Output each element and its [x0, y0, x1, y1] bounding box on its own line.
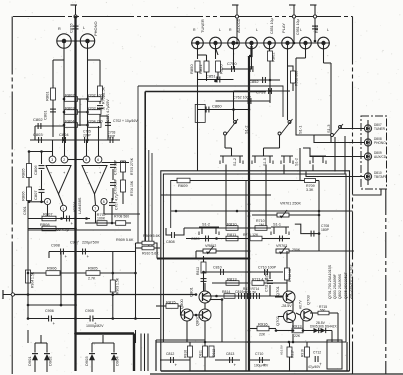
- resistor R850: [189, 61, 200, 74]
- node row330 l: [275, 329, 278, 332]
- transistor Q801: [189, 286, 212, 303]
- transistor Q702: [275, 311, 296, 327]
- node gbus r808: [74, 227, 77, 230]
- node row342 b: [204, 341, 207, 344]
- node r906 left: [27, 272, 30, 275]
- wire C708 row: [303, 233, 319, 235]
- wire bold rail 258: [157, 258, 249, 260]
- svg-text:S1-2: S1-2: [295, 158, 299, 166]
- wire row 318 c: [93, 318, 160, 320]
- wire opamp pin rail b: [64, 126, 66, 156]
- op-amp pin 4: [44, 198, 50, 204]
- wire R815 to Q800 base: [178, 306, 184, 315]
- resistor R903 1.5K: [110, 277, 119, 294]
- op-amp pin 2: [61, 156, 68, 163]
- diode D905: [314, 328, 319, 333]
- node q703 e: [302, 329, 305, 332]
- wire row 318 a: [28, 318, 49, 320]
- resistor R707 100K: [97, 212, 107, 225]
- node c860 junction: [248, 108, 251, 111]
- wire Q702 emitter down: [292, 321, 294, 331]
- wire wafer2 feed: [264, 147, 280, 149]
- node gbus 333: [74, 332, 77, 335]
- svg-text:C860: C860: [212, 104, 222, 109]
- svg-text:C712: C712: [313, 351, 321, 355]
- node c762 junction: [248, 100, 251, 103]
- node 135 273: [134, 272, 137, 275]
- wire R910 right: [154, 247, 160, 249]
- wire D810 bend: [306, 172, 320, 177]
- wire R862 down: [269, 61, 271, 103]
- wire pin4 drop: [47, 205, 49, 219]
- capacitor C804: [59, 132, 69, 143]
- node 294 a: [27, 293, 30, 296]
- svg-text:L: L: [83, 26, 85, 30]
- wire ladder mid rail: [79, 99, 81, 126]
- node col319 vr701: [318, 214, 321, 217]
- wire D808 bend: [314, 135, 335, 143]
- LED D807: [364, 125, 371, 132]
- svg-text:C706 18P: C706 18P: [114, 178, 118, 194]
- diode D904: [111, 354, 120, 366]
- svg-text:C905: C905: [85, 309, 94, 313]
- wire left pair v2c: [41, 193, 43, 202]
- wire fb rail1 top: [102, 162, 129, 164]
- wire rec L bend: [324, 62, 332, 64]
- node aux 272: [248, 271, 251, 274]
- wire C808 right hook: [174, 228, 184, 235]
- wire ground stub to aux junction: [236, 18, 238, 43]
- ground stub above rec jacks: [310, 5, 317, 18]
- resistor R810: [226, 222, 238, 231]
- node fb join: [111, 222, 114, 225]
- node aux 330: [248, 329, 251, 332]
- svg-text:Q800: Q800: [179, 298, 184, 309]
- capacitor C860: [206, 104, 222, 113]
- svg-text:C705 18P: C705 18P: [114, 159, 118, 175]
- node R804 left: [63, 124, 66, 127]
- svg-text:+: +: [234, 363, 237, 368]
- svg-text:22K: 22K: [294, 334, 301, 338]
- node gbus 318: [74, 317, 77, 320]
- wire double row b: [28, 229, 131, 231]
- wire wafer2 drop: [263, 148, 265, 156]
- resistor R913 22K: [292, 324, 303, 333]
- wire pin2-pin5 link: [68, 159, 83, 161]
- capacitor C762 100P: [233, 96, 252, 105]
- wire Q703 emitter: [302, 320, 304, 331]
- svg-text:-28.5V: -28.5V: [281, 304, 292, 308]
- section box 1: [161, 171, 350, 371]
- wire R815 left: [156, 305, 166, 307]
- wire r816 bot: [189, 357, 191, 371]
- svg-text:D905,906 DS442X: D905,906 DS442X: [310, 325, 337, 329]
- svg-text:Q802: Q802: [195, 315, 200, 326]
- wire fb rail1 v2b: [122, 172, 124, 180]
- node R704 left: [86, 124, 89, 127]
- svg-text:C812: C812: [166, 352, 174, 356]
- wire C851 row: [198, 79, 234, 81]
- resistor R904 1.5K: [26, 270, 35, 288]
- node row296 aux: [248, 295, 251, 298]
- svg-text:R805: R805: [21, 168, 26, 178]
- svg-text:VR701 250K: VR701 250K: [280, 202, 301, 206]
- wire after diodes: [331, 331, 333, 343]
- wire r718 top: [306, 342, 308, 347]
- node aux 342: [248, 341, 251, 344]
- node pair top a: [28, 150, 31, 153]
- svg-text:3: 3: [51, 158, 53, 162]
- svg-text:22K: 22K: [259, 333, 266, 337]
- capacitor C708 180P: [311, 231, 314, 237]
- wire C710 row: [249, 271, 283, 273]
- svg-text:R862: R862: [271, 52, 276, 62]
- wire C808 left hook: [166, 228, 172, 235]
- wire rec R stem: [305, 48, 307, 58]
- resistor R803: [65, 106, 78, 115]
- capacitor C706 18P: [110, 178, 118, 194]
- wire Q801 base link: [202, 295, 212, 297]
- svg-text:R806: R806: [21, 191, 26, 201]
- svg-text:C813: C813: [226, 352, 234, 356]
- node c809 j: [215, 237, 218, 240]
- wire C707 down: [111, 198, 113, 202]
- svg-text:6: 6: [97, 158, 99, 162]
- wire row 305: [28, 304, 76, 306]
- capacitor C909: [67, 216, 74, 227]
- switch wafer S1-5b lower: [310, 156, 326, 164]
- wire d901 top: [34, 343, 36, 353]
- wire d904 top: [113, 343, 115, 353]
- wire ladder rail right of R804: [78, 124, 89, 126]
- resistor R910: [142, 246, 154, 250]
- svg-text:R802: R802: [65, 93, 75, 98]
- wire feed col 148: [148, 150, 150, 247]
- wire R709 right: [316, 180, 320, 182]
- jack TUNER L: [210, 37, 222, 49]
- svg-text:C906: C906: [45, 309, 54, 313]
- wire R909 left: [136, 242, 143, 244]
- wire pin1 drop: [63, 212, 65, 219]
- wire row238b: [262, 238, 275, 240]
- svg-text:Q703: Q703: [306, 294, 311, 305]
- pot VR802: [203, 246, 216, 254]
- wire R952 branch: [288, 66, 294, 71]
- svg-text:R905: R905: [88, 266, 98, 271]
- node aux 258: [248, 257, 251, 260]
- node col319 c708: [318, 232, 321, 235]
- node c851 r850: [214, 80, 217, 83]
- section box A left edge: [137, 86, 139, 243]
- wire caps row 251: [49, 251, 136, 253]
- svg-text:560: 560: [320, 309, 326, 313]
- wire d904 bot: [113, 360, 115, 373]
- LED D809: [364, 153, 371, 160]
- resistor R950: [216, 61, 224, 74]
- svg-text:R850: R850: [189, 64, 194, 74]
- node pair bot b: [40, 201, 43, 204]
- svg-text:3.3K: 3.3K: [306, 188, 314, 192]
- svg-text:R916: R916: [258, 322, 268, 327]
- diode D812 column: [209, 346, 216, 357]
- wire opamp pin rail c: [86, 140, 88, 156]
- ground stub above phono jacks: [71, 5, 78, 18]
- wire caps row: [30, 139, 120, 141]
- wire R712 to Q701: [286, 280, 288, 291]
- resistor R862: [268, 51, 276, 62]
- svg-text:C810: C810: [213, 266, 222, 270]
- svg-text:Q802 2SA909S: Q802 2SA909S: [338, 273, 342, 299]
- node pair top b: [40, 150, 43, 153]
- wire col28: [27, 252, 29, 319]
- svg-text:R808: R808: [40, 222, 50, 227]
- capacitor C705 18P: [110, 159, 118, 175]
- bottom right small box: [327, 340, 342, 369]
- node 61 305: [60, 304, 63, 307]
- svg-text:R903 1.5K: R903 1.5K: [116, 277, 120, 294]
- section box B (bold): [145, 91, 266, 93]
- capacitor C813: [230, 357, 237, 368]
- switch wafer S1-2 lower: [220, 156, 243, 166]
- resistor R804: [65, 119, 78, 128]
- node row211 b: [236, 210, 239, 213]
- svg-text:A0.7V: A0.7V: [299, 299, 303, 309]
- svg-text:Q801: Q801: [189, 286, 194, 297]
- svg-text:C802: C802: [33, 117, 43, 122]
- node ladder a: [63, 139, 66, 142]
- wire C751 row: [234, 90, 291, 92]
- transistor Q701: [275, 285, 295, 303]
- node q702 e: [292, 329, 295, 332]
- wire C810 row: [204, 271, 250, 273]
- wire fb rail1 v1b: [112, 169, 114, 180]
- capacitor C807: [33, 190, 45, 200]
- svg-text:C803: C803: [33, 132, 43, 137]
- svg-text:R815: R815: [166, 300, 176, 305]
- wire phono L jack stem: [87, 48, 89, 140]
- svg-text:R804: R804: [65, 119, 75, 124]
- wire R712 top: [286, 251, 288, 268]
- svg-text:C807: C807: [33, 190, 38, 200]
- svg-text:C750: C750: [227, 61, 237, 66]
- svg-text:C908: C908: [51, 244, 60, 248]
- svg-text:C907: C907: [70, 241, 79, 245]
- wire bold aux bus: [248, 56, 250, 371]
- wire D809 tap: [330, 156, 364, 158]
- capacitor C905: [90, 316, 97, 327]
- resistor R906: [46, 266, 60, 276]
- node ladder b: [86, 139, 89, 142]
- diode D906: [321, 328, 326, 333]
- resistor R708 560: [114, 215, 129, 226]
- resistor R802: [65, 93, 78, 102]
- svg-text:PHONO: PHONO: [374, 141, 386, 145]
- wire R851 top link: [198, 54, 207, 56]
- wire led return: [380, 189, 382, 192]
- svg-text:220P: 220P: [83, 134, 92, 138]
- wire C860 row: [198, 109, 250, 111]
- wire ladder rail right of R802: [78, 98, 89, 100]
- svg-text:D904: D904: [115, 356, 120, 366]
- wire R950 down: [217, 72, 219, 80]
- capacitor C803: [33, 132, 43, 143]
- wire jack row bus: [191, 42, 330, 44]
- jack REC R: [300, 37, 312, 49]
- wire left pair v1b: [28, 178, 30, 188]
- resistor R715 560: [318, 311, 329, 315]
- wire left pair v2b: [41, 170, 43, 189]
- wire diode feed a: [40, 335, 42, 343]
- wire vr802 chain: [203, 256, 205, 291]
- wire rec L stem: [323, 48, 325, 63]
- resistor R916b: [301, 347, 310, 357]
- capacitor C810: [221, 269, 224, 275]
- capacitor C806: [33, 165, 45, 175]
- svg-text:IC701,702: IC701,702: [350, 264, 354, 282]
- capacitor C750b: [250, 66, 253, 72]
- wire fb rail1 v1: [112, 162, 114, 165]
- node gbus r807: [74, 217, 77, 220]
- svg-text:S1-2: S1-2: [244, 125, 249, 134]
- wire Q701 emitter down: [292, 302, 294, 312]
- wire R905 row b: [100, 272, 136, 274]
- wire C707 down2: [111, 206, 113, 223]
- wire S1-2 out: [224, 135, 226, 148]
- wire row 195: [161, 194, 271, 196]
- bus drop thin 1: [140, 334, 142, 372]
- jack AUX/CD R: [228, 37, 240, 49]
- svg-text:R807: R807: [43, 212, 53, 217]
- svg-text:TUNER: TUNER: [374, 127, 386, 131]
- switch wafer S1-5 lower: [252, 156, 273, 166]
- wire fb join2: [122, 192, 124, 204]
- capacitor C812: [171, 357, 178, 368]
- wire c908 left drop: [48, 252, 50, 259]
- wire diode row: [303, 330, 332, 332]
- wire ladder rail right of R803: [78, 111, 89, 113]
- wire row 211: [171, 210, 353, 212]
- svg-text:R812: R812: [196, 267, 200, 275]
- LED D810: [364, 173, 371, 180]
- svg-text:R810: R810: [227, 222, 237, 227]
- capacitor C808: [172, 232, 175, 238]
- wire ground stub to rec junction: [314, 18, 316, 41]
- rotary switch S1-1 contact: [278, 119, 303, 135]
- svg-text:C762 100P: C762 100P: [233, 96, 252, 100]
- wire C702 vertical: [107, 116, 109, 140]
- wire wafer1 feed: [225, 147, 232, 149]
- wire bottom box right: [346, 342, 348, 371]
- wire emitters row: [276, 330, 284, 332]
- resistor R703 100K: [87, 107, 106, 115]
- wire rec R bend: [296, 57, 306, 59]
- wire R916 row: [249, 328, 257, 330]
- wire Q702 base link: [278, 316, 283, 318]
- wire phono R rail: [63, 60, 65, 140]
- capacitor C809: [206, 236, 209, 242]
- svg-text:C711 1µ(1)50V: C711 1µ(1)50V: [265, 270, 269, 292]
- resistor D811: [199, 346, 208, 358]
- jack REC L: [318, 37, 330, 49]
- wire right col 345: [344, 136, 346, 175]
- wire R715 left: [310, 312, 318, 314]
- svg-text:C710: C710: [255, 352, 263, 356]
- wire wafer4 foot drop: [312, 165, 314, 172]
- wire left pair v1: [28, 152, 30, 164]
- svg-text:+: +: [71, 221, 74, 226]
- svg-text:R711 12K: R711 12K: [243, 233, 259, 237]
- capacitor C951 on rec ground: [312, 26, 318, 29]
- svg-text:R706 15K: R706 15K: [130, 180, 134, 196]
- op-amp U1a triangle: [46, 166, 71, 195]
- svg-text:R708 560: R708 560: [114, 215, 129, 219]
- transistor Q802: [195, 309, 212, 326]
- capacitor C711 electrolytic: [267, 281, 273, 284]
- svg-text:D901: D901: [27, 356, 32, 366]
- wire c908 col: [60, 252, 62, 306]
- op-amp U1b triangle: [82, 166, 107, 195]
- resistor R709 3.3K: [305, 179, 316, 183]
- capacitor C908: [61, 249, 68, 260]
- wire ground stub to phono junction: [75, 18, 77, 41]
- node row238 aux: [248, 237, 251, 240]
- svg-text:C801: C801: [43, 110, 48, 120]
- node row342 c: [248, 341, 251, 344]
- wire fb join1b: [112, 199, 113, 201]
- wire row238: [186, 238, 249, 240]
- svg-text:220µ/г50V: 220µ/г50V: [82, 241, 100, 245]
- wire col222 down: [221, 300, 223, 343]
- wire play L stem: [287, 48, 289, 120]
- node row342 r: [292, 341, 295, 344]
- capacitor C702 electrolytic: [105, 123, 111, 126]
- capacitor C907: [83, 249, 90, 260]
- node row296 r: [286, 295, 289, 298]
- svg-text:R813: R813: [227, 277, 237, 282]
- wire R715 right: [329, 312, 338, 314]
- wire R715 drop: [337, 313, 339, 342]
- node jack bus at play stub: [293, 42, 296, 45]
- node aux 251: [248, 250, 251, 253]
- diode D903: [84, 354, 95, 366]
- svg-text:2: 2: [63, 158, 65, 162]
- svg-text:LA6458S: LA6458S: [77, 197, 82, 214]
- wire row342: [156, 341, 346, 343]
- wire C711 bot: [269, 285, 271, 296]
- op-amp pin 3: [49, 156, 56, 163]
- resistor R706 15K: [121, 180, 135, 196]
- resistor R916 22K: [257, 322, 269, 331]
- svg-text:C707 4.7µ: C707 4.7µ: [115, 194, 119, 210]
- wire R851b down: [206, 72, 208, 81]
- wire pin8 out: [104, 213, 140, 215]
- part list text block: [328, 264, 353, 299]
- node pair bot a: [28, 201, 31, 204]
- resistor R801: [45, 88, 56, 101]
- op-amp pin 1: [60, 205, 66, 211]
- svg-text:R705 270K: R705 270K: [130, 157, 134, 175]
- wire r717 top: [289, 342, 291, 347]
- resistor R905 2.7K: [86, 266, 100, 276]
- svg-text:S1-1: S1-1: [273, 223, 281, 227]
- svg-text:D902: D902: [48, 356, 53, 366]
- wire d903 bot: [91, 360, 93, 373]
- wire R801 column vertical: [52, 60, 54, 137]
- resistor R816: [184, 346, 193, 358]
- wire row228b: [249, 227, 271, 229]
- wire R701 column: [99, 60, 101, 86]
- wire Q800 emitter down: [186, 321, 188, 342]
